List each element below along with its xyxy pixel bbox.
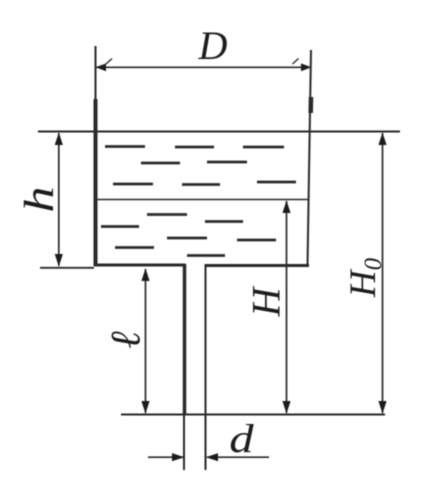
water surface reference line (H0 level)	[38, 131, 400, 133]
svg-text:D: D	[198, 23, 228, 68]
dimension label l (script ell, rotated)	[104, 331, 150, 349]
svg-text:d: d	[229, 416, 254, 461]
dimension label H (rotated)	[244, 285, 289, 317]
svg-text:H: H	[244, 285, 289, 317]
pipe left wall (thick)	[183, 264, 187, 415]
liquid dashes lower layer row 8	[187, 254, 225, 257]
tank left wall (thick)	[94, 99, 98, 266]
pipe right wall	[205, 264, 207, 470]
dimension line H0	[378, 133, 386, 414]
tank right wall with extension above	[308, 50, 312, 266]
dimension line d right segment	[206, 453, 269, 461]
liquid dashes lower layer row 6	[167, 238, 276, 240]
liquid dashes lower layer row 5	[101, 225, 139, 228]
liquid dashes upper layer row 1	[105, 145, 284, 148]
dimension label d	[229, 416, 254, 461]
extension line bottom of h	[40, 267, 94, 269]
tank bottom left of pipe	[94, 264, 186, 267]
dimension line D	[96, 59, 312, 72]
tank bottom right of pipe	[205, 264, 309, 267]
tank right wall thick dash	[308, 97, 313, 113]
liquid dashes lower layer row 7	[115, 246, 154, 249]
dimension line d left segment	[148, 453, 185, 461]
outlet ground line	[121, 414, 385, 416]
liquid dashes lower layer row 4	[147, 215, 243, 222]
pipe left wall extension below outlet line	[183, 415, 185, 470]
liquid dashes upper layer row 2	[141, 162, 247, 163]
intermediate water level line (H level)	[97, 199, 309, 201]
dimension label H0 (rotated, subscript zero)	[343, 257, 387, 298]
dimension label h (rotated)	[17, 186, 63, 212]
dimension line l	[141, 268, 149, 414]
extension line left above tank	[95, 46, 97, 100]
dimension line H	[282, 201, 290, 414]
svg-text:h: h	[17, 186, 63, 212]
svg-text:H0: H0	[343, 257, 387, 298]
dimension line h	[55, 133, 63, 267]
liquid dashes upper layer row 3	[113, 182, 296, 185]
svg-text:ℓ: ℓ	[104, 331, 150, 349]
